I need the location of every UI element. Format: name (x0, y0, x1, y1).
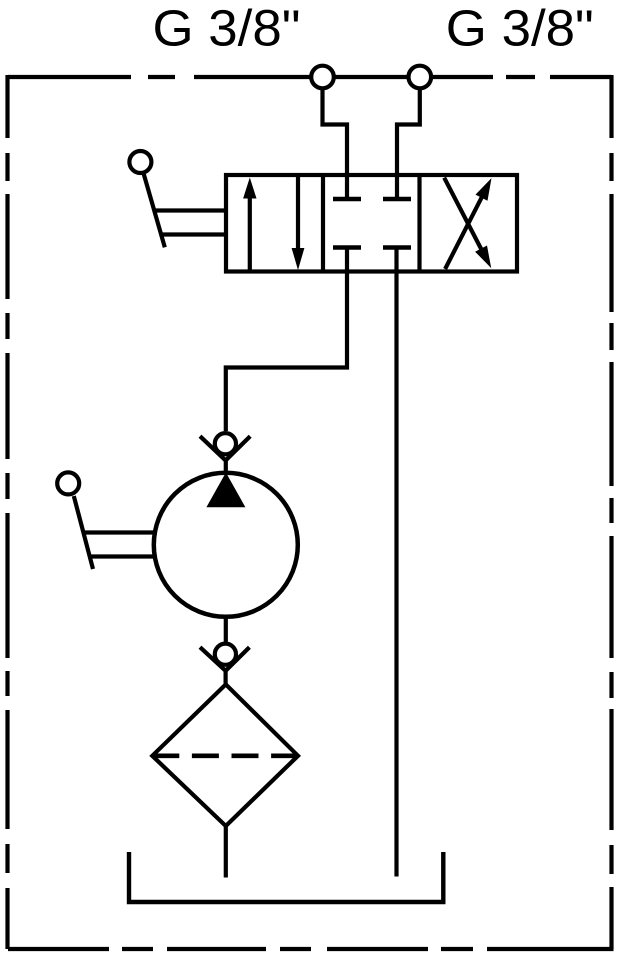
wire from pump suction to check valve CV2 (224, 618, 228, 643)
wire from filter F1 down into tank (224, 826, 228, 878)
wire from valve port T down to tank (394, 248, 398, 877)
hand pump HP1 lever bottom link (91, 554, 155, 558)
valve V1 right position cross arrow 1 (top-left to bottom-right) (444, 178, 483, 253)
valve V1 center position blocked port T (bottom-right T) (383, 245, 411, 250)
hand pump HP1 flow direction triangle (206, 473, 245, 508)
valve V1 right position cross arrow 2 (bottom-left to top-right) (445, 194, 483, 269)
valve V1 left position up-flow arrow (248, 194, 252, 270)
hand pump HP1 lever knob (57, 472, 79, 494)
valve V1 center position blocked port A (top-left T) (333, 197, 361, 202)
valve V1 center position blocked port B (top-right T) (383, 197, 411, 202)
suction filter F1 mesh (dashed line) (152, 753, 298, 758)
enclosure border bottom side (8, 947, 614, 951)
enclosure border left side (5, 75, 9, 949)
hand pump HP1 lever top link (85, 530, 155, 534)
check valve CV1 seat (200, 436, 250, 460)
valve V1 divider line 1 (321, 175, 325, 272)
port circle P1 (left, G 3/8") (311, 66, 334, 89)
valve V1 lever actuator bottom link (161, 232, 227, 236)
valve V1 divider line 2 (417, 175, 421, 272)
valve V1 center position blocked port P (bottom-left T) (333, 245, 361, 250)
hand pump HP1 lever rod (74, 496, 93, 569)
port circle P2 (right, G 3/8") (409, 66, 432, 89)
tank / reservoir T1 (129, 852, 443, 902)
wire from check valve CV1 to pump (224, 460, 228, 473)
valve V1 hand lever knob (129, 151, 151, 173)
enclosure border (dashed power-unit boundary), top side (8, 75, 612, 79)
suction filter F1 body (diamond) (152, 684, 298, 826)
enclosure border right side (609, 75, 613, 949)
check valve CV2 seat (200, 647, 249, 671)
check valve CV1 ball (215, 433, 236, 454)
directional control valve V1 body (226, 175, 517, 272)
valve V1 left position down-flow arrow (296, 177, 300, 252)
hand pump HP1 circle (154, 473, 298, 617)
svg-text:G 3/8": G 3/8" (446, 0, 594, 57)
check valve CV2 ball (215, 644, 236, 665)
svg-text:G 3/8": G 3/8" (153, 0, 301, 57)
wire from check valve CV2 to filter F1 (224, 671, 228, 687)
wire from port P1 to valve port A (323, 88, 348, 199)
valve V1 hand lever rod (144, 174, 165, 247)
wire from valve port P down and left to check valve CV1 (226, 248, 347, 432)
valve V1 lever actuator top link (154, 208, 227, 212)
wire from port P2 to valve port B (397, 88, 420, 199)
